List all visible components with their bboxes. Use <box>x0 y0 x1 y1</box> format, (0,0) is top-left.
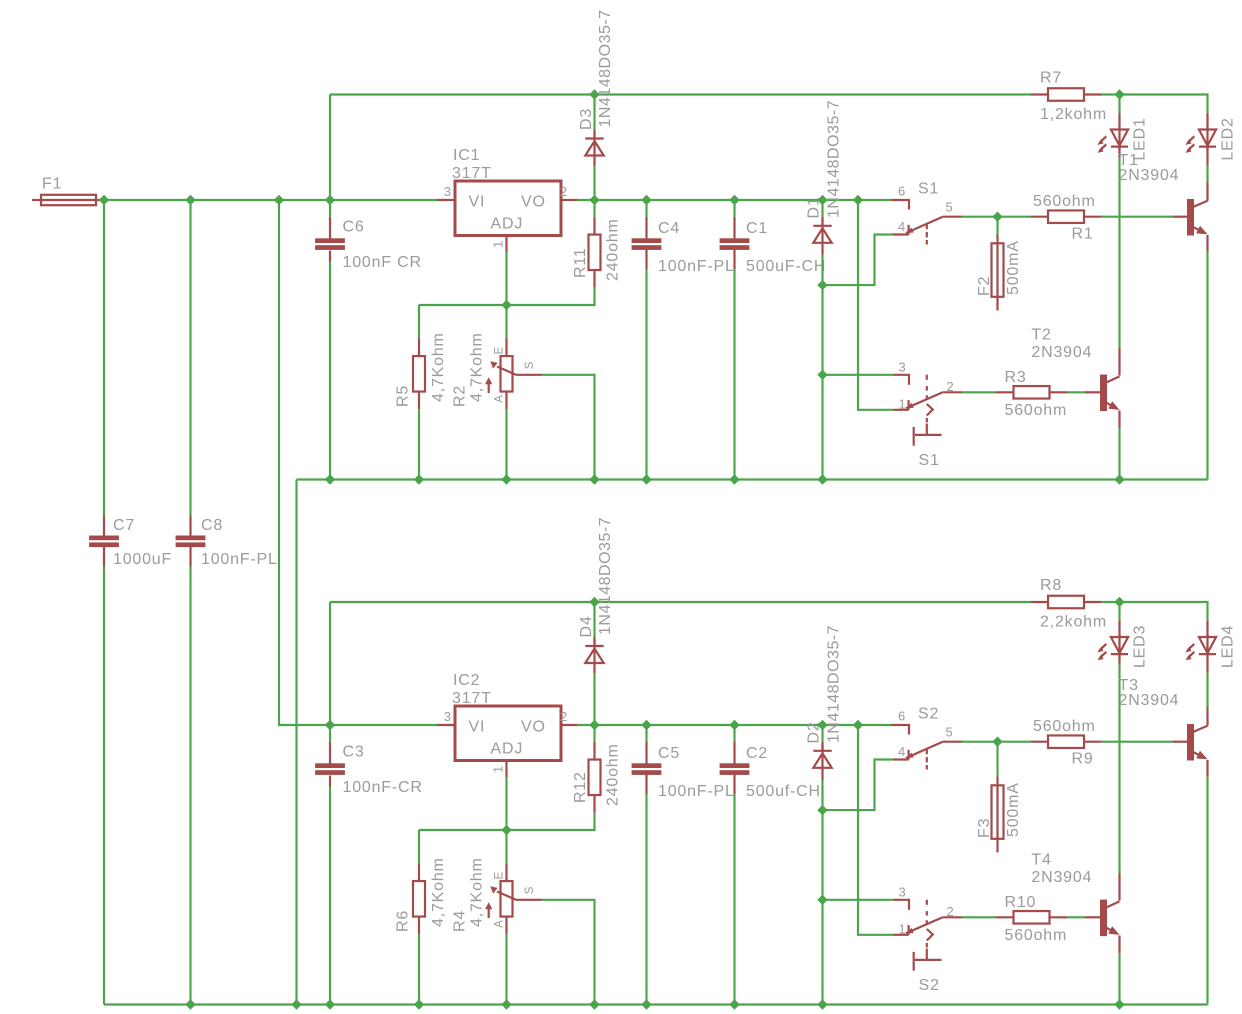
svg-text:560ohm: 560ohm <box>1033 193 1096 210</box>
switch S2 actuator dashes lower <box>926 900 928 905</box>
T2 base lead <box>1085 391 1100 393</box>
T1 emitter lead <box>1206 235 1208 252</box>
svg-text:1N4148DO35-7: 1N4148DO35-7 <box>826 100 843 218</box>
wire switch common feed <box>858 200 893 410</box>
switch S1 actuator dashes upper <box>926 224 928 229</box>
wire R11 top net <box>593 200 595 217</box>
LED3 anode lead <box>1118 620 1120 637</box>
switch S1 pin 4 tick <box>907 225 909 235</box>
svg-text:R9: R9 <box>1072 751 1094 768</box>
wire GND bottom rail <box>104 1003 1208 1005</box>
led LED4 <box>1199 637 1216 653</box>
wire D4 anode to main rail <box>593 673 595 725</box>
svg-text:R12: R12 <box>572 771 589 803</box>
svg-text:C6: C6 <box>343 219 365 236</box>
svg-text:500uf-CH: 500uf-CH <box>746 783 821 800</box>
wire LED3 anode net <box>1118 602 1120 620</box>
wire F2 top net <box>996 217 998 235</box>
svg-text:100nF CR: 100nF CR <box>343 254 422 271</box>
svg-text:4,7Kohm: 4,7Kohm <box>430 332 447 402</box>
svg-text:F2: F2 <box>976 276 993 296</box>
switch S1 pin 1 stub <box>893 409 909 411</box>
junction D1 main rail <box>818 196 827 205</box>
svg-text:1: 1 <box>491 765 506 773</box>
switch S1 pin 3 stub <box>893 375 909 385</box>
regulator IC1 317T <box>455 181 561 236</box>
capacitor C4 <box>632 238 662 243</box>
wire R12 bottom to adj <box>419 813 595 830</box>
svg-text:ADJ: ADJ <box>491 216 524 233</box>
svg-text:C1: C1 <box>746 220 768 237</box>
junction C1 main rail <box>730 196 739 205</box>
capacitor C2 <box>720 763 750 768</box>
C3 top lead <box>329 742 331 764</box>
capacitor C5 <box>632 763 662 768</box>
wire pot R4 E net <box>505 830 507 863</box>
svg-text:1N4148DO35-7: 1N4148DO35-7 <box>826 625 843 743</box>
fuse F1 lead right <box>96 199 104 201</box>
wire D1 anode down to gnd <box>821 255 823 480</box>
R9 lead left <box>1031 741 1048 743</box>
junction F3 pin5 net <box>993 737 1002 746</box>
wire switch common feed <box>858 725 893 935</box>
svg-text:ADJ: ADJ <box>491 741 524 758</box>
capacitor C3 <box>315 763 345 768</box>
switch S1 actuator dashes lower <box>926 375 928 380</box>
svg-text:317T: 317T <box>452 690 492 707</box>
wire F3 top net <box>996 742 998 777</box>
svg-text:100nF-PL: 100nF-PL <box>201 551 278 568</box>
svg-text:R11: R11 <box>572 247 589 278</box>
LED1 anode lead <box>1118 113 1120 130</box>
svg-text:4: 4 <box>898 219 906 234</box>
switch S2 actuator spring <box>927 929 933 941</box>
wire C8 bottom to gnd rail <box>189 567 191 1005</box>
wire R5 bottom to gnd <box>418 409 420 479</box>
svg-text:2: 2 <box>560 184 568 199</box>
svg-text:100nF-PL: 100nF-PL <box>658 783 735 800</box>
resistor R8 <box>1048 596 1084 609</box>
junction gnd rail link <box>292 1000 301 1009</box>
resistor R7 <box>1048 88 1084 101</box>
IC1 pin 3 stub <box>437 199 455 201</box>
wire C3 bottom to gnd rail <box>329 787 331 1005</box>
LED1 cathode lead <box>1118 147 1120 157</box>
svg-text:500uF-CH: 500uF-CH <box>746 258 826 275</box>
wire C4 top net <box>645 200 647 217</box>
transistor T1 2N3904 <box>1187 199 1194 236</box>
svg-text:E: E <box>494 346 506 354</box>
wire N$1 corner to main rail <box>329 95 331 201</box>
svg-text:2N3904: 2N3904 <box>1119 692 1180 709</box>
svg-text:R1: R1 <box>1072 226 1094 243</box>
LED3 cathode lead <box>1118 654 1120 664</box>
svg-text:S: S <box>524 886 536 894</box>
svg-text:R5: R5 <box>395 385 412 407</box>
regulator IC2 317T <box>455 706 561 761</box>
junction gnd rail C8 <box>186 1000 195 1009</box>
wire pot R4 S to gnd <box>542 900 595 1005</box>
wire LED1 anode net <box>1118 95 1120 113</box>
wire pin2 to R3 <box>962 391 996 393</box>
fuse F1 lead left <box>32 199 41 201</box>
resistor R6 <box>413 881 425 917</box>
junction gnd rail x=822.5 <box>818 475 827 484</box>
resistor R12 <box>589 760 601 796</box>
IC2 pin 1 (ADJ) stub <box>505 761 507 778</box>
wire R3 to T2 base <box>1067 391 1085 393</box>
svg-text:4,7Kohm: 4,7Kohm <box>469 857 486 927</box>
wire VOUT1 rail <box>577 199 892 201</box>
svg-text:LED3: LED3 <box>1132 625 1149 668</box>
wire C7 top net <box>103 200 105 516</box>
wire VOUT2 rail <box>577 724 892 726</box>
D1 anode lead <box>821 244 823 255</box>
resistor R1 <box>1048 210 1084 223</box>
wire IC1 ADJ to adj net <box>505 252 507 305</box>
svg-text:1000uF: 1000uF <box>113 551 172 568</box>
switch S2 pin 6 stub <box>892 725 910 735</box>
svg-text:C5: C5 <box>658 745 680 762</box>
wire pot R2 A to gnd <box>505 409 507 479</box>
wire T3 emitter to gnd <box>1206 777 1208 1005</box>
wire C2 top net <box>733 725 735 742</box>
wire D2 cathode net <box>821 725 823 742</box>
switch S2 actuator dashes upper <box>926 749 928 754</box>
junction gnd rail x=594.5 <box>590 475 599 484</box>
junction F1/C7 main rail <box>100 196 109 205</box>
pot R2 S lead <box>517 374 543 376</box>
pot R4 S lead <box>517 899 543 901</box>
svg-text:T2: T2 <box>1031 327 1051 344</box>
switch S1 pin 1 tick <box>907 400 909 410</box>
svg-text:IC1: IC1 <box>453 147 480 164</box>
switch S1 actuator spring <box>927 404 933 416</box>
junction gnd rail x=594.5 <box>590 1000 599 1009</box>
LED4 cathode lead <box>1206 654 1208 672</box>
svg-text:1: 1 <box>899 397 907 412</box>
switch S1 pushbutton symbol <box>926 424 928 435</box>
wire pin3 net <box>823 899 893 901</box>
svg-text:F1: F1 <box>42 176 62 193</box>
svg-text:3: 3 <box>444 709 452 724</box>
R1 lead left <box>1031 216 1048 218</box>
R7 lead right <box>1084 93 1101 95</box>
junction gnd rail x=506.5 <box>502 1000 511 1009</box>
LED4 anode lead <box>1206 620 1208 637</box>
svg-text:2,2kohm: 2,2kohm <box>1040 613 1107 630</box>
svg-text:240ohm: 240ohm <box>604 743 621 806</box>
T2 emitter lead <box>1118 411 1120 429</box>
svg-text:3: 3 <box>444 184 452 199</box>
T4 base lead <box>1085 916 1100 918</box>
R12 bottom lead <box>593 795 595 813</box>
C2 bottom lead <box>733 775 735 795</box>
svg-text:1,2kohm: 1,2kohm <box>1040 106 1107 123</box>
F2 bottom lead <box>996 297 998 311</box>
T3 base lead <box>1173 741 1187 743</box>
svg-text:3: 3 <box>899 885 907 900</box>
wire pot R4 A to gnd <box>505 934 507 1004</box>
svg-text:2: 2 <box>560 709 568 724</box>
junction D1 pin3 net <box>818 370 827 379</box>
wire D2 anode down to gnd <box>821 780 823 1005</box>
svg-text:2N3904: 2N3904 <box>1119 167 1180 184</box>
junction gnd rail x=330 <box>326 1000 335 1009</box>
T1 collector stub <box>1206 182 1208 201</box>
led LED3 <box>1111 637 1128 653</box>
svg-text:R2: R2 <box>452 385 469 407</box>
wire pot R2 S to gnd <box>542 375 595 480</box>
junction gnd rail x=822.5 <box>818 1000 827 1009</box>
D2 anode lead <box>821 769 823 780</box>
svg-text:R8: R8 <box>1040 577 1062 594</box>
svg-text:E: E <box>494 871 506 879</box>
F3 top lead <box>996 777 998 786</box>
led LED1 <box>1111 130 1128 146</box>
junction IC2 feed main rail <box>275 196 284 205</box>
switch S1 actuator dash below spring <box>926 418 928 423</box>
svg-text:C3: C3 <box>343 744 365 761</box>
C2 top lead <box>733 742 735 764</box>
svg-text:LED2: LED2 <box>1220 117 1237 160</box>
fuse F1 <box>41 195 96 205</box>
switch S2 pin 4 stub <box>893 758 909 760</box>
switch S2 upper lever <box>906 742 943 758</box>
trimmer R2 <box>501 356 513 392</box>
wire R10 to T4 base <box>1067 916 1085 918</box>
transistor T4 2N3904 <box>1100 900 1107 937</box>
C6 top lead <box>329 217 331 239</box>
R3 lead right <box>1050 391 1068 393</box>
resistor R5 <box>413 356 425 392</box>
svg-text:2N3904: 2N3904 <box>1031 344 1092 361</box>
junction R11 main rail <box>590 196 599 205</box>
switch S2 pin 1 tick <box>907 925 909 935</box>
junction D3 top rail <box>590 90 599 99</box>
diode D3 <box>585 137 603 139</box>
svg-text:R10: R10 <box>1005 894 1037 911</box>
wire C5 bottom to gnd <box>645 794 647 1004</box>
C8 bottom lead <box>189 547 191 567</box>
junction gnd rail x=1119.5 <box>1115 1000 1124 1009</box>
wire C1 bottom to gnd <box>733 269 735 479</box>
led LED2 <box>1199 130 1216 146</box>
switch S2 actuator dash below spring <box>926 943 928 948</box>
junction D2 pin4 net <box>818 806 827 815</box>
fuse F3 <box>992 785 1004 839</box>
wire gnd link channel1 to bottom rail <box>295 480 297 1005</box>
wire C5 top net <box>645 725 647 742</box>
switch S1 pin 5 stub <box>943 216 962 218</box>
svg-text:R3: R3 <box>1005 369 1027 386</box>
svg-text:560ohm: 560ohm <box>1033 718 1096 735</box>
wire T2 emitter to gnd <box>1118 428 1120 479</box>
svg-text:560ohm: 560ohm <box>1005 927 1068 944</box>
R10 lead left <box>996 916 1014 918</box>
wire N$1 top rail <box>330 93 1031 95</box>
R7 lead left <box>1031 93 1048 95</box>
wire D3 cathode net <box>593 95 595 130</box>
resistor R9 <box>1048 735 1084 748</box>
svg-text:100nF-PL: 100nF-PL <box>658 258 735 275</box>
IC2 pin 2 stub <box>561 724 577 726</box>
junction gnd rail x=506.5 <box>502 475 511 484</box>
R5 top lead <box>418 338 420 356</box>
pot R4 A lead <box>505 917 507 935</box>
svg-text:4: 4 <box>898 744 906 759</box>
R3 lead left <box>996 391 1014 393</box>
junction gnd rail x=734.5 <box>730 1000 739 1009</box>
junction C8 main rail <box>186 196 195 205</box>
junction F2 pin5 net <box>993 212 1002 221</box>
R11 top lead <box>593 217 595 235</box>
wire C8 top net <box>189 200 191 516</box>
junction D2 pin3 net <box>818 895 827 904</box>
svg-text:6: 6 <box>898 184 906 199</box>
F3 bottom lead <box>996 839 998 853</box>
C7 bottom lead <box>103 547 105 567</box>
svg-text:D3: D3 <box>578 108 595 130</box>
wire LED3 cathode to T4 collector <box>1118 665 1120 874</box>
junction D2 main rail <box>818 721 827 730</box>
wire gnd rail channel 1 <box>297 478 1208 480</box>
wire C6 top net <box>329 200 331 217</box>
svg-text:5: 5 <box>946 725 954 740</box>
wire R9 to T3 base <box>1101 741 1173 743</box>
capacitor C6 <box>315 238 345 243</box>
capacitor C8 <box>176 536 206 541</box>
D2 cathode lead <box>821 742 823 751</box>
wire LED1 cathode to T2 collector <box>1118 157 1120 348</box>
D4 anode lead <box>593 664 595 673</box>
R6 top lead <box>418 863 420 881</box>
svg-text:VO: VO <box>521 719 546 736</box>
svg-text:VI: VI <box>469 194 486 211</box>
junction C3 main rail <box>326 721 335 730</box>
wire D3 anode to main rail <box>593 166 595 201</box>
junction D4 top rail <box>590 598 599 607</box>
T3 collector stub <box>1206 707 1208 726</box>
wire C7 bottom to gnd rail <box>103 567 105 1005</box>
svg-text:317T: 317T <box>452 165 492 182</box>
svg-text:S1: S1 <box>918 181 939 198</box>
switch S2 pin 1 stub <box>893 934 909 936</box>
wire VIN2 rail <box>330 724 437 726</box>
svg-text:S: S <box>524 361 536 369</box>
switch S1 pin 2 stub <box>943 391 962 393</box>
C5 top lead <box>645 742 647 764</box>
resistor R10 <box>1014 911 1050 924</box>
svg-text:6: 6 <box>898 709 906 724</box>
wire pin4 elbow <box>823 760 893 811</box>
junction C5 main rail <box>642 721 651 730</box>
junction LED3 top rail <box>1115 598 1124 607</box>
svg-text:LED4: LED4 <box>1220 625 1237 668</box>
junction gnd rail x=419 <box>415 1000 424 1009</box>
svg-text:C4: C4 <box>658 220 680 237</box>
wire IC2 ADJ to adj net <box>505 777 507 830</box>
wire R5 top net <box>418 305 420 338</box>
transistor T2 2N3904 <box>1100 375 1107 412</box>
pot R2 A lead <box>505 392 507 410</box>
wire C3 top net <box>329 725 331 742</box>
switch S2 pushbutton symbol <box>926 949 928 960</box>
wire T4 emitter to gnd <box>1118 953 1120 1004</box>
C4 bottom lead <box>645 250 647 270</box>
transistor T3 2N3904 <box>1187 724 1194 761</box>
capacitor C1 <box>720 238 750 243</box>
junction R12 main rail <box>590 721 599 730</box>
switch S1 lower lever <box>906 392 943 408</box>
svg-text:IC2: IC2 <box>453 672 480 689</box>
D4 cathode lead <box>593 637 595 646</box>
LED2 anode lead <box>1206 113 1208 130</box>
wire N$2 top rail <box>330 601 1031 603</box>
svg-text:2N3904: 2N3904 <box>1031 869 1092 886</box>
R9 lead right <box>1084 741 1101 743</box>
wire T1 emitter to gnd <box>1206 252 1208 480</box>
junction LED1 top rail <box>1115 90 1124 99</box>
pot R4 E lead <box>505 863 507 881</box>
junction C6 main rail <box>326 196 335 205</box>
svg-text:S2: S2 <box>918 706 939 723</box>
F2 top lead <box>996 235 998 244</box>
wire VIN to IC2 input rail <box>279 200 330 725</box>
pot R2 E lead <box>505 338 507 356</box>
svg-text:R4: R4 <box>452 910 469 932</box>
wire N$1 top rail right <box>1101 95 1208 113</box>
svg-text:3: 3 <box>899 360 907 375</box>
wire R6 bottom to gnd <box>418 934 420 1004</box>
wire LED2 cathode to T1 collector <box>1206 165 1208 182</box>
svg-text:560ohm: 560ohm <box>1005 402 1068 419</box>
svg-text:R7: R7 <box>1040 70 1062 87</box>
T2 collector stub <box>1118 348 1120 376</box>
wire LED4 cathode to T3 collector <box>1206 673 1208 708</box>
diode D4 <box>585 645 603 647</box>
capacitor C7 <box>89 536 119 541</box>
svg-text:2: 2 <box>947 379 955 394</box>
svg-text:T4: T4 <box>1031 852 1051 869</box>
fuse F2 <box>992 243 1004 296</box>
wire C1 top net <box>733 200 735 217</box>
junction gnd rail x=419 <box>415 475 424 484</box>
switch S2 pin 4 tick <box>907 750 909 760</box>
svg-text:1N4148DO35-7: 1N4148DO35-7 <box>597 9 614 127</box>
junction gnd rail x=330 <box>326 475 335 484</box>
wire C4 bottom to gnd <box>645 269 647 479</box>
wire pin5 to R1 <box>962 216 1031 218</box>
svg-text:VI: VI <box>469 719 486 736</box>
C1 bottom lead <box>733 250 735 270</box>
D3 cathode lead <box>593 130 595 139</box>
svg-text:1N4148DO35-7: 1N4148DO35-7 <box>597 517 614 635</box>
D1 cathode lead <box>821 217 823 226</box>
junction adj net pot R4 <box>502 826 511 835</box>
T4 collector stub <box>1118 873 1120 901</box>
svg-text:5: 5 <box>946 200 954 215</box>
wire C2 bottom to gnd <box>733 794 735 1004</box>
R10 lead right <box>1050 916 1068 918</box>
T4 emitter lead <box>1118 936 1120 954</box>
svg-text:A: A <box>494 919 506 927</box>
svg-text:R6: R6 <box>395 910 412 932</box>
IC1 pin 2 stub <box>561 199 577 201</box>
LED2 cathode lead <box>1206 147 1208 165</box>
svg-text:VO: VO <box>521 194 546 211</box>
junction switch feed main rail <box>854 196 863 205</box>
